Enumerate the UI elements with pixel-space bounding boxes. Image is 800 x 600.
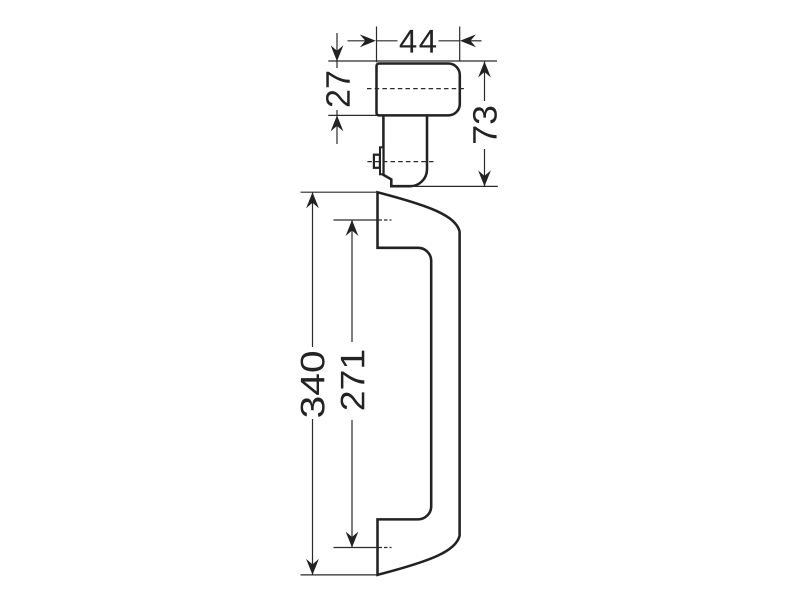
dimension 73: bottom dimension line segment <box>484 149 486 186</box>
centerline dashed (stem) <box>367 161 435 163</box>
dimension 340: value text "340" <box>301 352 325 417</box>
dimension 44: dimension line left segment <box>377 40 398 42</box>
neck / stem of cross-section <box>383 115 427 186</box>
dimension 271: text background gap <box>336 342 369 420</box>
extension line top hole (271) <box>334 219 378 221</box>
dimension 27: top arrow shaft <box>336 33 338 68</box>
dimension 27: top arrowhead <box>331 45 344 61</box>
dimension 340: bottom arrowhead <box>306 559 319 575</box>
grip cross-section body <box>377 64 460 116</box>
dimension 271: dimension line <box>351 220 353 548</box>
dimension 271: top arrowhead <box>346 220 359 236</box>
dimension 44: right arrowhead <box>460 34 476 47</box>
dimension 271: value text "271" <box>341 351 365 410</box>
dimension 44: left arrowhead <box>360 34 376 47</box>
dimension 27: value text "27" <box>326 72 350 106</box>
dimension 73: bottom arrowhead <box>478 170 491 186</box>
extension line bottom (340) <box>301 574 378 576</box>
centerline dashed (grip) <box>367 88 467 90</box>
handle outline <box>378 192 460 575</box>
dimension 340: dimension line <box>312 192 314 575</box>
dimension 73: value text "73" <box>473 107 497 143</box>
mounting flange plate <box>380 147 383 174</box>
extension line bottom hole (271) <box>334 547 378 549</box>
dimension 44: value text "44" <box>400 30 436 53</box>
top extension line <box>328 60 497 62</box>
screw head on stem <box>374 155 380 168</box>
dimension 27: bottom arrow shaft <box>336 110 338 144</box>
bottom hole centerline dashes <box>379 547 392 549</box>
dimension 340: text background gap <box>296 347 329 419</box>
dimension 44: left extension line <box>376 27 378 63</box>
extension line top (340) <box>301 191 378 193</box>
dimension 44: right arrow tail <box>471 40 482 42</box>
dimension 44: right extension line <box>459 27 461 62</box>
top hole centerline dashes <box>379 219 392 221</box>
dimension 44: left arrow tail <box>348 40 367 42</box>
dimension 44: dimension line right segment <box>439 40 460 42</box>
extension line bottom of stem for 73 <box>411 185 498 187</box>
dimension 340: top arrowhead <box>306 192 319 208</box>
dimension 27: bottom arrowhead <box>331 115 344 131</box>
bottom extension line for 27 <box>328 114 376 116</box>
dimension 73: top dimension line segment <box>484 62 486 102</box>
dimension 271: bottom arrowhead <box>346 532 359 548</box>
dimension 73: top arrowhead <box>478 62 491 78</box>
